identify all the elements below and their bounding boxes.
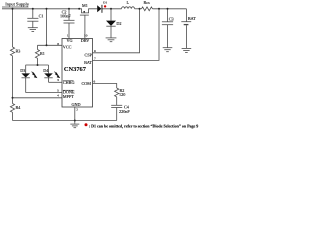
svg-text:CN3767: CN3767: [64, 66, 87, 73]
svg-text:M1: M1: [82, 3, 88, 8]
svg-text:R4: R4: [16, 105, 22, 110]
svg-text:10: 10: [84, 34, 88, 38]
svg-text:CSP: CSP: [85, 52, 93, 57]
svg-text:D2: D2: [116, 21, 121, 26]
svg-text:D4: D4: [43, 68, 49, 73]
svg-text:R3: R3: [16, 49, 21, 54]
svg-text:C3: C3: [169, 17, 174, 22]
svg-text:D3: D3: [20, 68, 25, 73]
svg-text:2: 2: [76, 108, 78, 112]
svg-text:7: 7: [94, 57, 96, 61]
svg-text:CHRG: CHRG: [63, 80, 75, 85]
svg-text:6: 6: [94, 80, 96, 84]
svg-text:VCC: VCC: [63, 45, 72, 50]
svg-text:100nF: 100nF: [60, 13, 71, 18]
svg-text:C1: C1: [39, 14, 44, 19]
svg-text:D1: D1: [103, 1, 107, 5]
svg-text:9: 9: [94, 49, 96, 53]
svg-text:COM: COM: [81, 81, 91, 86]
svg-text:: D1 can be omitted, refer to: : D1 can be omitted, refer to section “D…: [89, 123, 199, 128]
svg-text:220nF: 220nF: [119, 109, 130, 114]
svg-text:3: 3: [57, 78, 59, 82]
svg-text:VG: VG: [67, 38, 73, 43]
svg-text:R1: R1: [40, 51, 45, 56]
svg-text:Rcs: Rcs: [144, 0, 151, 5]
svg-text:5: 5: [57, 88, 59, 92]
svg-text:MPPT: MPPT: [63, 94, 74, 99]
svg-text:GND: GND: [72, 102, 81, 107]
svg-text:BAT: BAT: [84, 60, 92, 65]
svg-text:DRV: DRV: [81, 38, 90, 43]
svg-text:120: 120: [119, 92, 125, 97]
svg-text:1: 1: [67, 34, 69, 38]
svg-text:8: 8: [57, 42, 59, 46]
svg-text:Input Supply: Input Supply: [5, 1, 30, 6]
svg-text:4: 4: [57, 94, 59, 98]
svg-text:L: L: [127, 0, 130, 5]
svg-text:BAT: BAT: [188, 16, 196, 21]
